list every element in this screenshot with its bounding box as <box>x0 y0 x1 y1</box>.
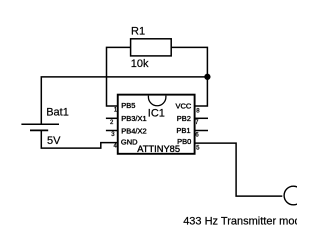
svg-text:Bat1: Bat1 <box>46 107 69 119</box>
wire: R1 left terminal left and down to pin 1 PB5 <box>107 47 131 106</box>
IC U1 body: ATTINY85 IC1 box <box>118 95 195 154</box>
svg-text:IC1: IC1 <box>148 107 165 119</box>
wire: battery + terminal up to VCC rail across to junction <box>41 77 207 124</box>
svg-text:PB4/X2: PB4/X2 <box>121 127 146 136</box>
wire: battery - terminal down and right to pin 4 GND <box>41 130 118 148</box>
svg-text:PB1: PB1 <box>176 126 190 135</box>
resistor R1 <box>131 39 172 56</box>
battery Bat1 short plate <box>30 129 48 131</box>
transmitter module circle (clipped at right edge) <box>284 186 303 205</box>
pin 2 stub PB3/X1 <box>106 117 118 119</box>
svg-text:PB0: PB0 <box>177 137 191 146</box>
svg-text:5V: 5V <box>47 135 61 147</box>
pin 7 stub PB2 <box>194 117 208 119</box>
wire: R1 right terminal down through junction to pin 8 VCC <box>171 47 207 106</box>
svg-text:GND: GND <box>121 138 138 147</box>
svg-text:PB3/X1: PB3/X1 <box>121 114 146 123</box>
pin 3 stub PB4/X2 <box>106 130 118 132</box>
svg-text:ATTINY85: ATTINY85 <box>137 144 180 154</box>
wire: pin 5 PB0 right and down to transmitter module <box>194 143 282 196</box>
svg-text:PB2: PB2 <box>177 114 191 123</box>
svg-text:R1: R1 <box>131 26 145 38</box>
svg-text:PB5: PB5 <box>121 101 135 110</box>
svg-text:10k: 10k <box>131 58 149 70</box>
svg-text:VCC: VCC <box>175 101 191 110</box>
battery Bat1 long plate <box>21 123 59 125</box>
pin 6 stub PB1 <box>194 130 208 132</box>
svg-text:433 Hz Transmitter module: 433 Hz Transmitter module <box>183 216 297 228</box>
node: junction dot on VCC rail <box>204 74 210 80</box>
IC notch <box>148 96 166 106</box>
